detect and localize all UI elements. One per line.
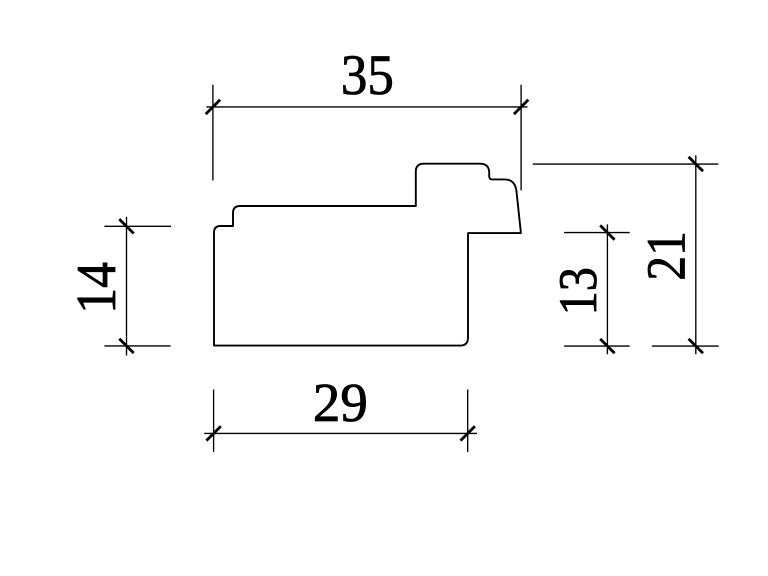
svg-text:29: 29 (313, 372, 368, 433)
svg-text:13: 13 (548, 267, 608, 315)
svg-text:21: 21 (636, 231, 697, 280)
svg-text:14: 14 (65, 262, 127, 314)
svg-text:35: 35 (341, 43, 394, 106)
